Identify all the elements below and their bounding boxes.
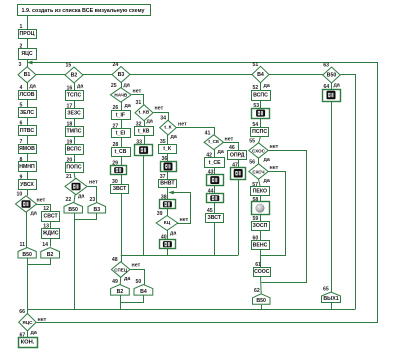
svg-text:В3: В3 [118,72,125,78]
svg-text:В2: В2 [71,72,78,78]
process icon box 36 [161,156,177,172]
svg-text:ВСПС: ВСПС [253,93,268,99]
wire bottom collector rail [27,309,355,311]
svg-text:31: 31 [136,100,142,106]
svg-text:62: 62 [254,288,260,294]
decision diamond 56 СХСЧ [249,159,268,179]
wire 9 to 10 [27,189,29,196]
wire title to block 1 [27,15,29,29]
box 30 ЗВСТ [111,179,129,193]
svg-text:ПСПС: ПСПС [252,129,267,135]
wire 21 no to 23 [88,187,97,203]
box 37 ВНВТ [159,174,177,187]
wire 12 to 13 [50,221,52,228]
box 42 t_СЕ [205,153,225,168]
svg-text:ЯЦС: ЯЦС [22,320,33,325]
box 8 НМНП [19,157,37,172]
wire 41 no to 46 [224,143,239,151]
label net right of 39 [180,217,189,223]
svg-text:ЗОСП: ЗОСП [253,223,268,229]
svg-text:t_СЕ: t_СЕ [209,160,221,166]
wire 55 no bypass to above 62 [262,151,307,283]
svg-text:3: 3 [19,62,22,68]
wire 11 down to 66 [27,257,29,313]
label da below 39 [170,231,176,237]
svg-text:ПОПС: ПОПС [66,165,81,171]
svg-text:СХСЧ: СХСЧ [252,169,264,174]
wire 26 to 27 [121,120,123,128]
svg-text:t_СЕ: t_СЕ [208,139,220,145]
label da below 41 [218,149,224,155]
wire 39 yes to 40 [167,230,169,239]
process icon box 64 [323,84,341,102]
svg-text:65: 65 [323,287,329,293]
label net right of 56 [270,165,279,171]
process icon box 44 [207,189,224,203]
label net right of 48 [132,262,141,268]
wire 42 to 43 [214,167,216,174]
label da below B4 [264,83,270,89]
svg-text:ТСПС: ТСПС [67,93,82,99]
wire 29 to 30 [121,175,123,185]
arrowhead into node above B1 [27,61,33,65]
box 52 ВСПС [252,85,271,101]
connector pentagon 49 В2 [111,279,130,295]
wire B1 to B2 [36,74,65,76]
wire 20 to 21 [74,172,75,178]
wire 31 no to 34 [154,113,169,121]
wire 33 down to rail [143,155,145,255]
wire 58 to 59 [260,214,262,221]
svg-text:СПЕЦ: СПЕЦ [114,267,127,272]
svg-text:56: 56 [249,159,255,165]
svg-text:ЯЦС: ЯЦС [21,51,33,57]
wire 47 down to rail [238,179,240,255]
wire 38 to 39 [167,209,169,216]
box 13 ЖДИС [42,223,60,238]
wire 66 yes to 67 [27,331,29,338]
wire 22 down to bottom rail [74,213,76,310]
box 20 ПОПС [66,158,84,173]
label da below 56 [264,178,270,184]
decision diamond 41 t_СЕ [204,130,223,149]
svg-text:нет: нет [37,198,46,204]
svg-text:ЖДИС: ЖДИС [42,231,59,237]
svg-text:24: 24 [113,62,119,68]
box 26 t_IF [112,105,131,120]
label da below 10 [31,211,37,217]
decision diamond 66 ЯЦС [19,309,36,331]
box 45 ЗВСТ [206,208,224,222]
label da below B2 [77,84,83,90]
label da below 21 [78,193,84,199]
svg-text:t_К: t_К [163,146,172,152]
wire 45 down to rail [214,222,216,255]
svg-text:нет: нет [178,122,187,128]
svg-text:СВСТ: СВСТ [44,213,59,219]
wire 18 to 19 [74,136,76,145]
svg-text:t_СВ: t_СВ [114,149,126,155]
wire 13 to 14 [50,238,52,246]
wire 65 down to bottom rail [331,303,333,310]
decision diamond 24 В3 [112,62,130,83]
box 28 t_СВ [112,142,131,157]
svg-text:11: 11 [20,242,26,248]
process icon box 43 [207,170,224,186]
box 17 ЗЕЗС [66,104,84,119]
wire 64 to 65 [331,101,333,292]
wire B4 to B50 [269,74,323,76]
svg-text:41: 41 [205,130,211,136]
svg-text:48: 48 [112,257,118,263]
label net right of 31 [155,106,164,112]
decision diamond 39 КЦ [156,211,178,230]
wire 23 merge [75,213,97,220]
label net right of 21 [89,180,98,186]
svg-text:да: да [147,119,153,125]
box 27 t_EI [112,123,131,137]
svg-text:ЛСОВ: ЛСОВ [19,92,34,98]
decision diamond 31 t_КВ [135,100,153,121]
svg-text:В50: В50 [68,207,78,213]
wire 34 yes to 35 [167,135,169,144]
wire 48 yes to 49 [119,277,122,284]
wire 14 merge to main [28,258,51,265]
decision diamond 63 В50 [323,63,340,84]
svg-text:В50: В50 [22,252,32,258]
wire 25 yes to 26 [121,102,123,110]
wire 62 down to bottom rail [261,305,263,309]
svg-text:В50: В50 [256,298,266,304]
box 12 СВСТ [42,206,60,222]
label da below 66 [31,330,37,336]
wire 19 to 20 [74,154,76,163]
svg-text:да: да [30,84,36,90]
label net right of 41 [225,136,234,142]
svg-text:63: 63 [323,63,329,69]
box 46 ОПРД [228,145,247,159]
box 57 ПЕКО [251,182,270,196]
svg-text:ПТВС: ПТВС [20,128,34,134]
svg-text:t_К: t_К [164,125,171,131]
svg-text:нет: нет [180,217,189,223]
svg-text:1.9. создать из списка ВСЕ виз: 1.9. создать из списка ВСЕ визуальную сх… [22,8,145,14]
wire B50 yes to 64 [331,83,333,89]
label da below B50 [334,83,340,89]
decision icon diamond 21 [65,174,87,195]
box 16 ТСПС [66,86,84,101]
label net right of 66 [38,317,47,323]
svg-text:ЗЕЗС: ЗЕЗС [67,111,81,117]
box 54 ПСПС [251,122,269,136]
connector pentagon 14 В2 [41,242,60,258]
svg-text:да: да [334,83,340,89]
svg-text:55: 55 [249,138,255,144]
box 32 t_КВ [135,121,154,135]
svg-text:В50: В50 [327,72,337,78]
decision icon diamond 10 [16,191,37,212]
svg-text:22: 22 [66,197,72,203]
wire 39 no loop back [173,193,191,224]
svg-text:В1: В1 [24,72,31,78]
wire 36 to 37 [167,172,169,179]
wire 28 to 29 [121,156,123,166]
svg-text:нет: нет [225,136,234,142]
svg-text:да: да [170,231,176,237]
wire 46 to 47 [238,160,240,168]
svg-text:нет: нет [38,317,47,323]
box 18 ТМПС [66,122,84,137]
decision diamond 3 В1 [18,62,36,83]
svg-text:да: да [171,134,177,140]
svg-text:ПРОЦ: ПРОЦ [20,31,35,37]
svg-text:34: 34 [160,116,166,122]
wire 17 to 18 [74,118,76,127]
terminator box 67 КОН. [19,333,38,348]
box 1 ПРОЦ [19,24,37,39]
wire block 1 to 2 [27,39,29,49]
svg-text:нет: нет [133,89,142,95]
wire 5 to 6 [27,118,29,126]
wire 43 to 44 [214,186,216,194]
box 35 t_К [159,139,177,153]
decision diamond 34 t_К [160,116,177,135]
connector pentagon 50 В4 [134,279,153,295]
wire B3 yes to 25 [121,83,123,88]
box 19 ВСПС [66,140,84,155]
wire 56 yes to 57 [259,179,261,187]
box 2 ЯЦС [19,44,37,60]
svg-text:да: да [78,193,84,199]
wire B2 yes to 16 [74,83,76,91]
box 4 ЛСОВ [19,85,37,100]
box 7 ЯМОВ [19,139,37,154]
wire 54 to 55 [259,136,261,142]
wire 27 to 28 [121,138,123,147]
wire B50 no-branch down right side [341,75,356,310]
svg-text:НАЧВ: НАЧВ [114,93,128,98]
connector pentagon 22 В50 [64,197,83,213]
svg-text:да: да [124,276,130,282]
svg-text:14: 14 [42,242,48,248]
wire 32 to 33 [144,136,146,145]
svg-text:да: да [264,157,270,163]
wire 52 to 53 [260,101,262,109]
wire 25 no to 31 [132,95,144,105]
box 61 СООС [254,262,271,277]
wire collector rail above 48 [121,255,238,257]
wire 30 down to 48 [121,193,123,262]
box 59 ЗОСП [252,216,270,230]
svg-text:В2: В2 [117,289,124,295]
svg-text:да: да [124,83,130,89]
wire B1 yes to 4 [27,83,29,90]
svg-text:50: 50 [136,279,142,285]
wire 57 to 58 [260,196,262,202]
wire B4 yes to 52 [260,83,262,90]
svg-text:КОН.: КОН. [21,340,35,346]
wire 34 no to 41 [177,128,215,135]
wire 61 to 62 [260,276,263,294]
process icon box 58 [252,197,270,215]
svg-text:В2: В2 [47,252,54,258]
wire 53 to 54 [260,118,262,127]
svg-text:нет: нет [155,106,164,112]
wire 16 to 17 [74,100,76,109]
decision diamond 55 СХОС [249,138,268,158]
wire 4 to 5 [27,100,29,108]
box 6 ПТВС [19,121,37,136]
label net right of 55 [270,144,279,150]
svg-text:t_КВ: t_КВ [139,110,150,116]
title box [18,5,151,16]
svg-text:ВЫХ1: ВЫХ1 [323,296,338,302]
svg-text:21: 21 [66,174,72,180]
label net right of 25 [133,89,142,95]
svg-text:нет: нет [270,165,279,171]
process icon box 40 [160,235,176,249]
svg-text:49: 49 [112,279,118,285]
wire 56 no bypass to above 61 [261,172,286,256]
wire loop return from YaCS no-branch [29,63,378,323]
wire 35 to 36 [167,153,169,161]
arrowhead loop into wire 37-38 [168,191,174,195]
connector pentagon 23 В3 [88,197,106,213]
svg-text:39: 39 [157,211,163,217]
process icon box 47 [231,162,246,179]
svg-text:ЗВСТ: ЗВСТ [113,186,127,192]
svg-text:КЦ: КЦ [164,220,171,226]
svg-text:В4: В4 [140,289,147,295]
decision diamond 25 НАЧВ [110,83,131,102]
svg-text:10: 10 [17,191,23,197]
svg-text:23: 23 [90,197,96,203]
wire 10 yes to 11 [26,212,28,247]
svg-text:нет: нет [89,180,98,186]
decision diamond 51 В4 [252,62,269,83]
connector pentagon 11 В50 [18,242,36,258]
svg-text:ЗЕЛС: ЗЕЛС [20,110,34,116]
label da below 34 [171,134,177,140]
box 5 ЗЕЛС [19,103,37,118]
wire 40 down to rail [167,249,169,256]
connector pentagon 65 ВЫХ1 [322,287,341,303]
label net right of 10 [37,198,46,204]
svg-text:t_IF: t_IF [116,112,125,118]
wire 44 to 45 [214,203,216,214]
wire 49 down to bottom rail [120,295,122,309]
decision diamond 48 СПЕЦ [111,257,130,277]
svg-text:t_КВ: t_КВ [138,129,150,135]
svg-text:СХОС: СХОС [252,148,265,153]
box 9 УВСХ [19,175,37,190]
svg-text:да: да [218,149,224,155]
wire 50 merge [121,296,144,303]
svg-text:25: 25 [111,83,117,89]
svg-text:да: да [264,83,270,89]
wire 59 to 60 [260,230,262,240]
wire B2 to B3 [83,74,112,76]
svg-text:да: да [31,211,37,217]
svg-text:да: да [31,330,37,336]
label da below B1 [30,84,36,90]
svg-text:ВНВТ: ВНВТ [160,181,175,187]
label net right of 34 [178,122,187,128]
connector pentagon 62 В50 [253,288,271,304]
wire 60 to 61 [260,249,262,267]
wire 55 yes to 56 [258,158,260,164]
svg-text:СООС: СООС [254,269,270,275]
wire 6 to 7 [27,135,29,144]
svg-text:В3: В3 [93,207,100,213]
label da below 25 [125,103,131,109]
svg-text:НМНП: НМНП [19,164,35,170]
process icon box 29 [111,161,127,175]
process icon box 33 [135,140,153,156]
svg-text:нет: нет [132,262,141,268]
label da below 48 [124,276,130,282]
wire 31 yes to 32 [144,121,146,127]
svg-text:15: 15 [66,63,72,69]
wire 7 to 8 [27,154,29,162]
svg-text:УВСХ: УВСХ [20,182,34,188]
wire 37 to 38 [167,187,169,200]
svg-text:t_EI: t_EI [116,131,126,137]
svg-text:ТМПС: ТМПС [67,129,82,135]
wire 21 yes to 22 [74,195,75,203]
svg-text:да: да [77,84,83,90]
wire B3 to B4 [130,74,252,76]
label da below 31 [147,119,153,125]
svg-text:66: 66 [19,309,25,315]
svg-text:ЗВСТ: ЗВСТ [208,215,222,221]
label da below 55 [264,157,270,163]
svg-text:В4: В4 [257,72,264,78]
svg-text:ВЕНС: ВЕНС [253,242,268,248]
wire 8 to 9 [27,172,29,180]
svg-text:да: да [125,103,131,109]
svg-text:нет: нет [270,144,279,150]
svg-text:ЯМОВ: ЯМОВ [19,146,35,152]
wire 48 no to 50 [131,270,145,285]
svg-text:ОПРД: ОПРД [230,152,245,158]
process icon box 53 [252,103,270,118]
box 60 ВЕНС [252,236,270,250]
label da below B3 [124,83,130,89]
svg-text:ПЕКО: ПЕКО [253,189,267,195]
wire 41 yes to 42 [214,150,216,158]
svg-text:да: да [264,178,270,184]
decision diamond 15 В2 [65,63,83,84]
svg-text:ВСПС: ВСПС [67,147,82,153]
svg-text:51: 51 [253,62,259,68]
process icon box 38 [160,195,176,209]
wire block 2 to B1 [27,59,29,67]
wire 10 no to 12 [36,205,51,212]
